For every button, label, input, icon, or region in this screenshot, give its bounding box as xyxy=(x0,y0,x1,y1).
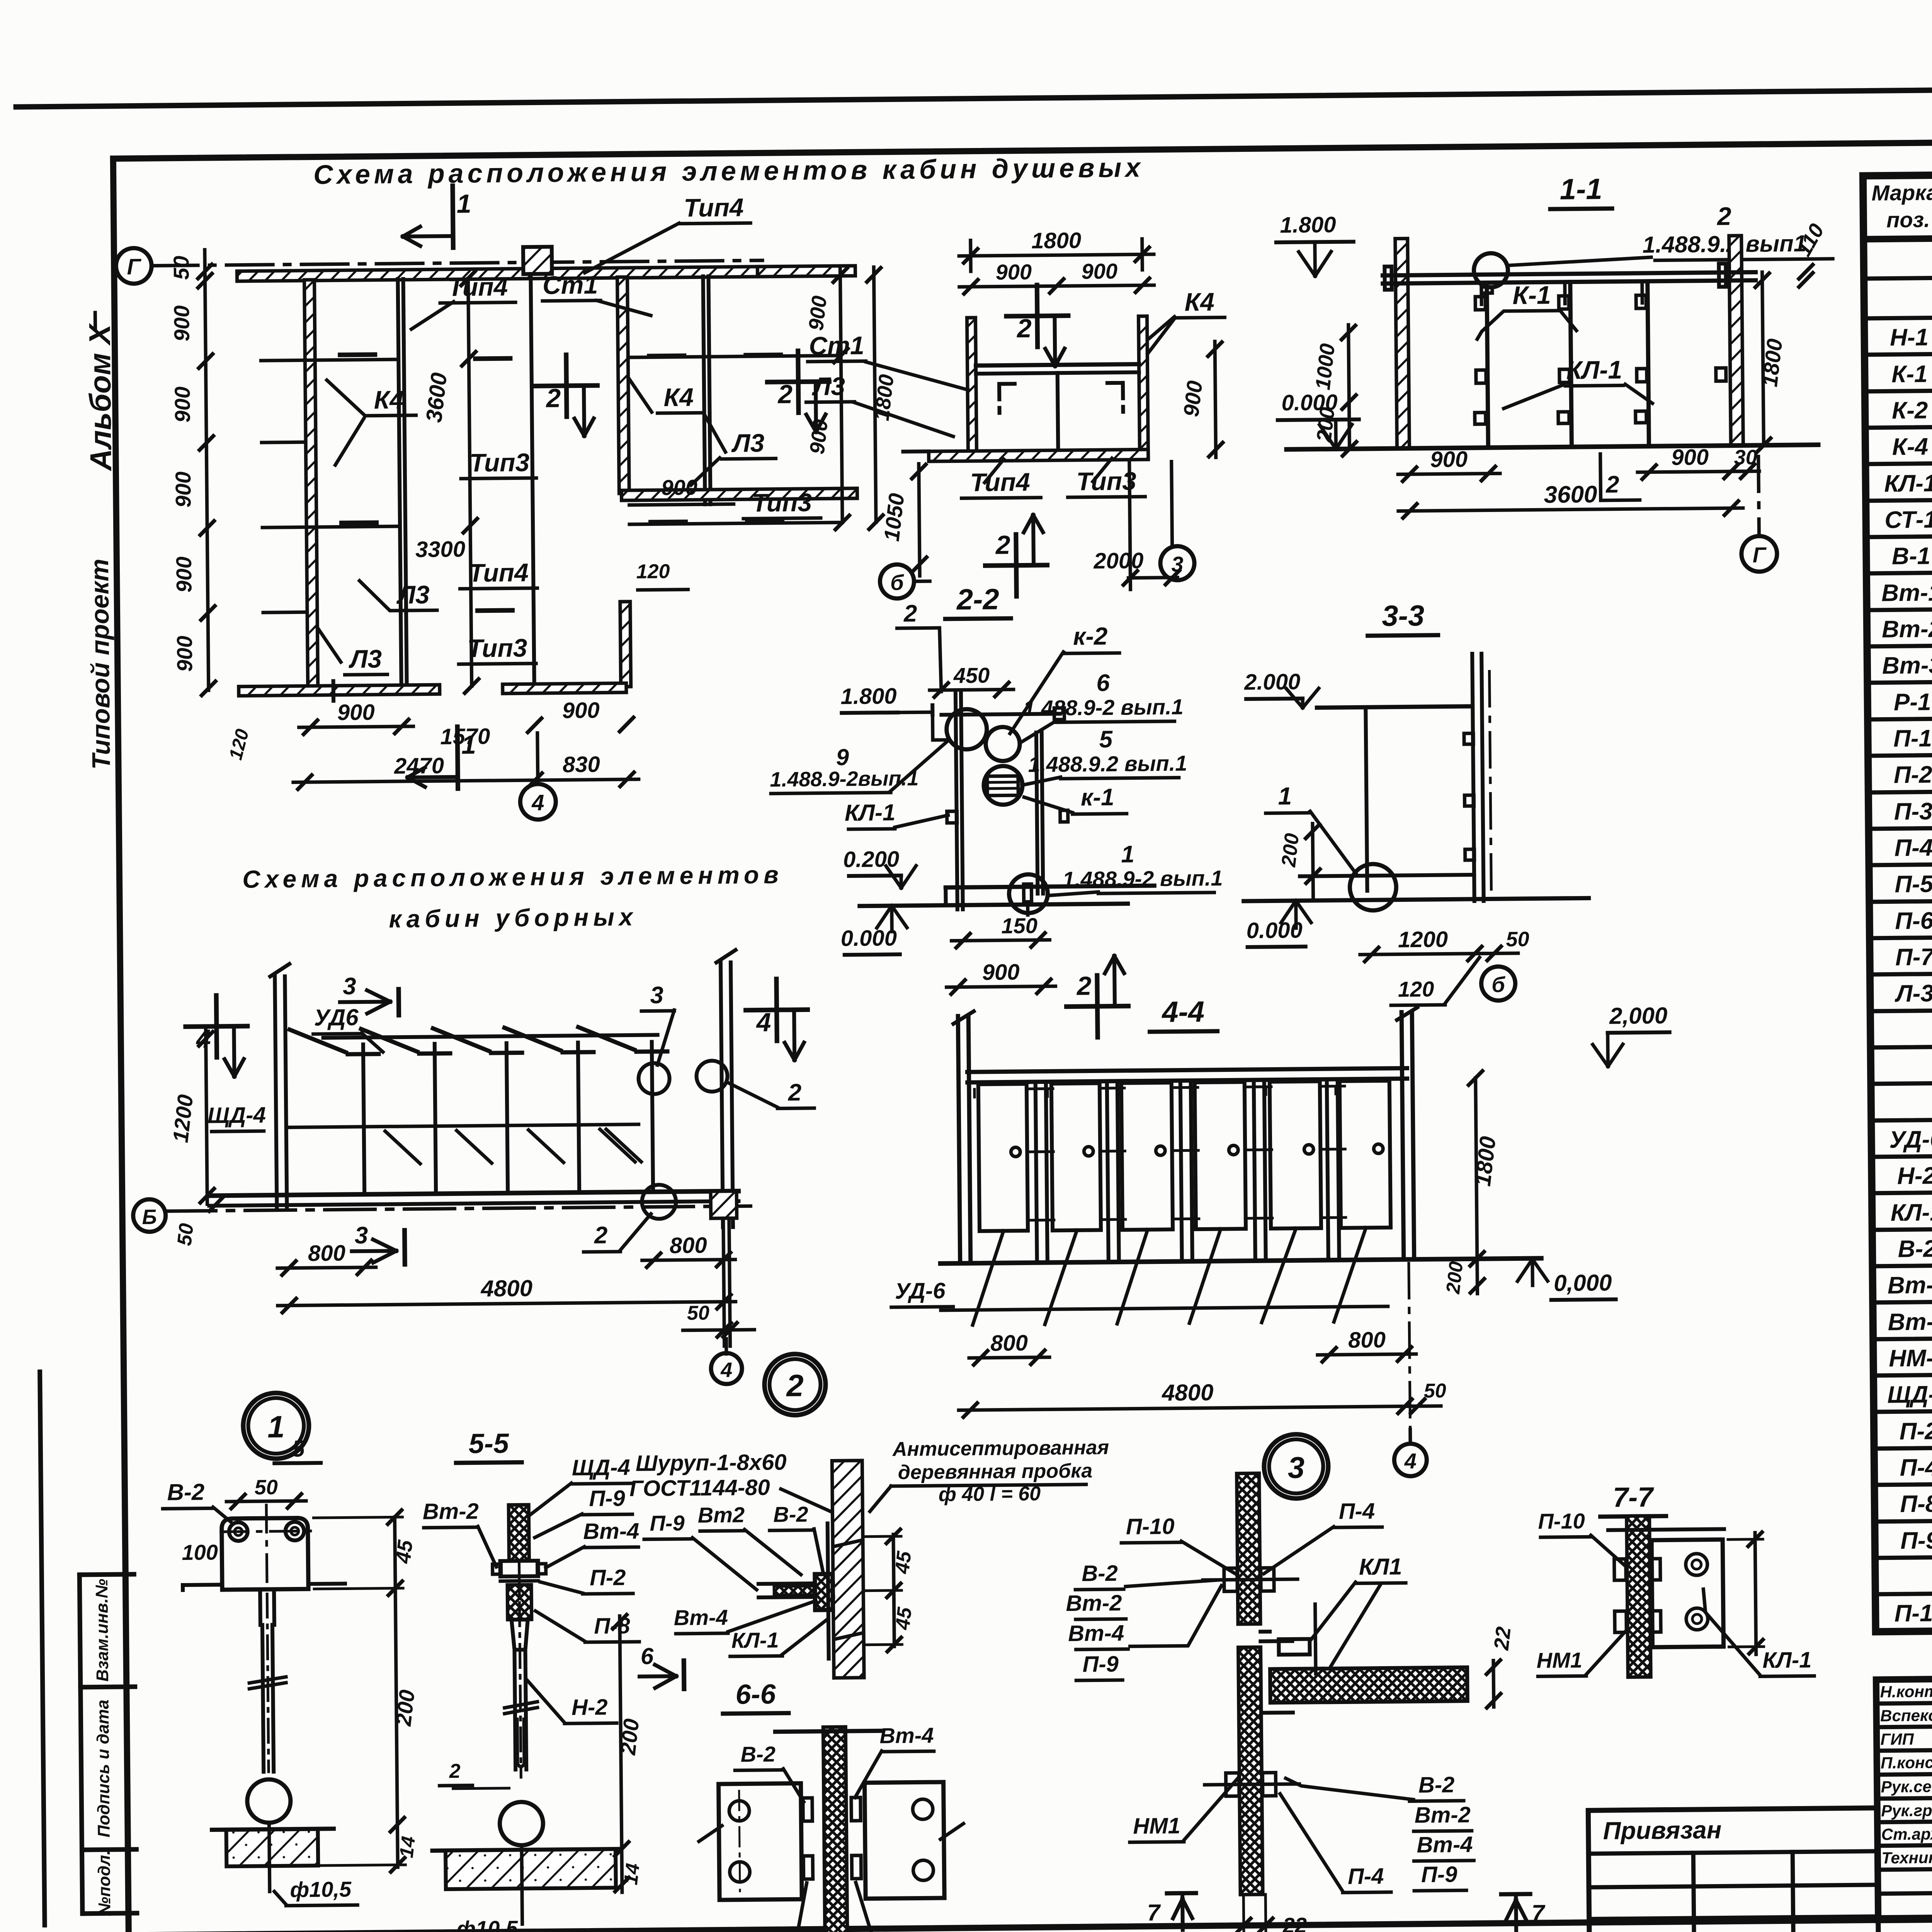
1-1 dim 900 left bottom xyxy=(1398,473,1500,474)
svg-text:900: 900 xyxy=(804,294,832,332)
svg-text:800: 800 xyxy=(308,1240,345,1266)
svg-text:Вт2: Вт2 xyxy=(698,1502,745,1527)
2-2 floor lines xyxy=(946,886,1154,888)
svg-text:6: 6 xyxy=(1096,670,1110,696)
7-7 top line xyxy=(1608,1529,1724,1530)
svg-text:800: 800 xyxy=(670,1233,707,1258)
svg-text:СТ-1: СТ-1 xyxy=(1884,506,1932,533)
svg-text:поз.: поз. xyxy=(1886,207,1930,232)
4-4 dim 200 right xyxy=(1470,1279,1484,1293)
svg-text:0.000: 0.000 xyxy=(1246,918,1303,943)
ubornyh braces diagonal xyxy=(385,1131,420,1164)
1-1 dim 900 30 right bottom xyxy=(1638,471,1743,472)
detail1 shaft break marks xyxy=(249,1677,286,1683)
svg-text:Н-1: Н-1 xyxy=(1890,324,1929,351)
svg-text:Тип3: Тип3 xyxy=(469,448,530,477)
svg-text:1.488.9-2 вып.1: 1.488.9-2 вып.1 xyxy=(1023,694,1184,720)
svg-text:К4: К4 xyxy=(374,385,404,414)
plan dim left column 50 900x5 xyxy=(205,250,209,690)
привязан box xyxy=(1588,1808,1878,1932)
svg-text:НМ1: НМ1 xyxy=(1133,1813,1180,1839)
1-1 posts xyxy=(1487,283,1488,448)
svg-text:6-6: 6-6 xyxy=(735,1679,776,1710)
svg-text:200: 200 xyxy=(1277,832,1304,868)
7-7 clips left xyxy=(1614,1559,1626,1580)
plan bottom-right wall hatched band xyxy=(621,488,857,500)
ubornyh small circles right xyxy=(638,1063,670,1094)
plan bottom wall hatched bands xyxy=(239,685,440,696)
svg-text:3: 3 xyxy=(343,973,356,1000)
big detail circle 2 xyxy=(764,1354,826,1415)
1-1 dim 3600 xyxy=(1398,508,1743,511)
svg-text:2,000: 2,000 xyxy=(1609,1003,1668,1029)
svg-text:900: 900 xyxy=(995,260,1032,284)
svg-text:30: 30 xyxy=(1734,446,1757,469)
svg-text:В-2: В-2 xyxy=(1898,1235,1932,1262)
4-4 leader line УД-6 with diagonals xyxy=(941,1306,1388,1310)
svg-text:Вспекого: Вспекого xyxy=(1880,1706,1932,1725)
svg-text:П-5: П-5 xyxy=(1895,871,1932,898)
5-5 ground hatch xyxy=(432,1849,618,1850)
sectionB dashed corners xyxy=(999,384,1015,413)
Tdetail clips xyxy=(1224,1568,1238,1591)
3-3 floor line xyxy=(1244,898,1589,901)
svg-text:КЛ-1: КЛ-1 xyxy=(1884,470,1932,497)
svg-text:П-9: П-9 xyxy=(650,1511,685,1536)
plan left wall hatched xyxy=(304,280,318,689)
svg-text:1: 1 xyxy=(457,189,471,218)
3-3 shelf line xyxy=(1300,875,1474,876)
svg-text:14: 14 xyxy=(395,1835,419,1859)
svg-text:200: 200 xyxy=(615,1718,643,1757)
svg-text:4: 4 xyxy=(755,1008,771,1037)
4-4 bottom dim 4800 and 50 xyxy=(959,1406,1417,1410)
svg-text:45: 45 xyxy=(391,1539,417,1565)
svg-text:П-4: П-4 xyxy=(1339,1498,1375,1524)
svg-text:2.000: 2.000 xyxy=(1244,669,1301,695)
svg-text:1: 1 xyxy=(1278,782,1292,810)
ubornyh axis Б circle xyxy=(133,1199,166,1232)
svg-text:П-9: П-9 xyxy=(1082,1651,1119,1677)
left margin vertical strip table xyxy=(80,1575,83,1913)
svg-text:КЛ-1: КЛ-1 xyxy=(1891,1199,1932,1226)
3-3 dims 1200 50 120 xyxy=(1360,954,1486,955)
svg-text:Н.контр: Н.контр xyxy=(1880,1682,1932,1701)
svg-text:2: 2 xyxy=(594,1222,608,1248)
detail6 plate on wall xyxy=(828,1524,829,1659)
circled 4 axis bottom xyxy=(537,733,538,784)
detail1 ball foot xyxy=(247,1779,291,1823)
ubornyh door posts and swings xyxy=(363,1044,364,1194)
sectionB shelf double line xyxy=(976,364,1139,366)
svg-text:П-10: П-10 xyxy=(1538,1509,1585,1533)
svg-text:П-10: П-10 xyxy=(1894,1600,1932,1627)
svg-text:830: 830 xyxy=(563,752,600,777)
svg-text:900: 900 xyxy=(337,700,375,725)
svg-text:900: 900 xyxy=(562,698,600,723)
sectionB axis b circle left xyxy=(880,564,914,599)
2-2 panel verticals xyxy=(956,692,957,910)
svg-text:ГОСТ1144-80: ГОСТ1144-80 xyxy=(629,1475,770,1501)
title block name rows xyxy=(1876,1701,1932,1704)
svg-text:Ст1: Ст1 xyxy=(543,270,598,299)
svg-text:900: 900 xyxy=(982,959,1020,985)
svg-text:УД6: УД6 xyxy=(314,1004,359,1031)
svg-text:120: 120 xyxy=(636,560,670,583)
svg-text:14: 14 xyxy=(620,1862,644,1886)
plan dim bottom 2470 830 xyxy=(293,779,639,782)
svg-text:2: 2 xyxy=(545,383,561,413)
svg-text:Л3: Л3 xyxy=(731,429,765,457)
svg-text:Подпись и дата: Подпись и дата xyxy=(94,1699,114,1837)
ubornyh schit line ЩД-4 xyxy=(288,1124,639,1128)
sectionB dim 900 right xyxy=(1215,342,1216,457)
svg-text:ф10,5: ф10,5 xyxy=(290,1877,352,1901)
svg-text:П.констр: П.констр xyxy=(1881,1753,1932,1772)
ubornyh plan left wall double xyxy=(275,976,277,1209)
svg-text:1.800: 1.800 xyxy=(840,684,897,709)
svg-text:2: 2 xyxy=(449,1760,461,1782)
2-2 detail circles xyxy=(946,709,987,750)
svg-text:1800: 1800 xyxy=(1757,337,1787,388)
svg-text:Тип3: Тип3 xyxy=(1076,466,1136,495)
svg-text:Б: Б xyxy=(142,1206,157,1229)
svg-text:7-7: 7-7 xyxy=(1613,1482,1655,1513)
5-5 bushing cluster xyxy=(500,1561,538,1577)
4-4 circle 4 xyxy=(1408,1429,1412,1442)
detail6 bracket horizontal xyxy=(759,1583,833,1584)
svg-text:2: 2 xyxy=(777,379,793,409)
section marker 2 down-right plan xyxy=(798,351,798,413)
svg-text:50: 50 xyxy=(173,1222,198,1247)
svg-text:50: 50 xyxy=(1506,928,1529,951)
svg-text:1.488.9.2 вып1: 1.488.9.2 вып1 xyxy=(1642,230,1806,258)
ubornyh sec marker 4 right xyxy=(776,979,777,1041)
svg-text:1200: 1200 xyxy=(1398,927,1448,952)
svg-text:Н-2: Н-2 xyxy=(571,1695,608,1720)
1-1 bottom 2 marker xyxy=(1600,454,1640,500)
svg-text:Шуруп-1-8х60: Шуруп-1-8х60 xyxy=(636,1449,787,1476)
ubornyh top breaks on walls xyxy=(270,964,289,976)
plan mid-right wall hatched xyxy=(617,277,629,493)
plan cell dash marks xyxy=(340,352,375,357)
svg-text:450: 450 xyxy=(953,663,990,688)
svg-text:1-1: 1-1 xyxy=(1560,173,1602,206)
svg-text:ф10,5: ф10,5 xyxy=(456,1916,518,1932)
svg-text:200: 200 xyxy=(1312,406,1339,444)
plan right dim 900 900 column xyxy=(840,267,842,522)
svg-text:Схема расположения элементов: Схема расположения элементов xyxy=(242,861,783,893)
svg-text:2: 2 xyxy=(1076,971,1092,1001)
svg-text:№подл.: №подл. xyxy=(95,1850,114,1916)
detail6 dims 45 45 right xyxy=(893,1534,894,1600)
svg-text:В-1: В-1 xyxy=(1892,543,1931,570)
svg-text:Типовой проект: Типовой проект xyxy=(85,559,116,770)
detail1 leg shaft xyxy=(258,1589,262,1625)
svg-text:НМ-1: НМ-1 xyxy=(1889,1345,1932,1372)
svg-text:КЛ-1: КЛ-1 xyxy=(1762,1647,1812,1673)
svg-text:2: 2 xyxy=(903,600,917,627)
svg-text:900: 900 xyxy=(169,305,194,342)
2-2 bottom marker 2 xyxy=(1097,975,1097,1037)
sectionB dim 1800 top xyxy=(959,254,1154,256)
4-4 bottom dim 800 left xyxy=(969,1357,1049,1358)
section marker 1 bottom xyxy=(457,727,458,789)
6-6 top plate xyxy=(775,1731,881,1731)
svg-text:3600: 3600 xyxy=(421,371,452,424)
section marker 1 top xyxy=(452,186,453,248)
svg-text:3300: 3300 xyxy=(415,537,466,562)
svg-text:П-2: П-2 xyxy=(590,1565,626,1590)
3-3 dim 200 xyxy=(1313,824,1313,901)
plan dushevyh axis Г circle xyxy=(116,248,152,284)
svg-text:П-9: П-9 xyxy=(1900,1527,1932,1554)
svg-text:Рук.гр.: Рук.гр. xyxy=(1881,1801,1932,1820)
6-6 breaks xyxy=(699,1826,722,1842)
spec table outer border xyxy=(1863,168,1932,1632)
svg-text:Вт-4: Вт-4 xyxy=(583,1519,639,1544)
3-3 axis Б circle xyxy=(1481,966,1515,1001)
svg-text:4-4: 4-4 xyxy=(1161,995,1205,1029)
sectionB axis 3 circle xyxy=(1172,462,1172,547)
4-4 door panels xyxy=(978,1084,1028,1231)
5-5 dim 200 right xyxy=(620,1616,622,1849)
svg-text:Тип4: Тип4 xyxy=(970,468,1030,497)
sheet outer left border line xyxy=(40,1372,44,1925)
svg-text:22: 22 xyxy=(1282,1913,1307,1932)
svg-text:0.000: 0.000 xyxy=(841,925,897,951)
3-3 left vertical xyxy=(1366,707,1367,891)
4-4 posts between panels xyxy=(1036,1082,1037,1263)
6-6 center hatched strip xyxy=(823,1727,848,1932)
svg-text:7: 7 xyxy=(1532,1900,1546,1926)
plan right dim 1800 xyxy=(874,267,876,522)
svg-text:Привязан: Привязан xyxy=(1603,1816,1721,1845)
svg-text:ГИП: ГИП xyxy=(1880,1730,1914,1748)
ubornyh axis dash line xyxy=(166,1206,751,1211)
svg-text:К-1: К-1 xyxy=(1512,281,1551,310)
svg-text:1050: 1050 xyxy=(879,492,909,543)
detail6 clamp middle xyxy=(815,1573,833,1610)
svg-text:4800: 4800 xyxy=(480,1275,532,1301)
svg-text:Г: Г xyxy=(1752,543,1767,567)
sectionB marker 2 down xyxy=(1037,285,1037,347)
svg-text:П-4: П-4 xyxy=(1348,1864,1384,1889)
title block outer box xyxy=(1876,1672,1932,1920)
svg-text:КЛ-1: КЛ-1 xyxy=(845,799,896,826)
svg-text:кабин уборных: кабин уборных xyxy=(389,903,638,933)
Tdetail horizontal hatched shelf xyxy=(1270,1667,1468,1702)
svg-text:Тип3: Тип3 xyxy=(467,633,527,662)
svg-text:Техник: Техник xyxy=(1881,1849,1932,1867)
svg-text:В-2: В-2 xyxy=(773,1502,808,1527)
svg-text:120: 120 xyxy=(1398,977,1434,1002)
svg-text:Вт-4: Вт-4 xyxy=(879,1723,934,1748)
2-2 bolt bottom xyxy=(1024,884,1031,902)
7-7 dim right xyxy=(1755,1533,1756,1655)
svg-text:ЩД-4: ЩД-4 xyxy=(1887,1381,1932,1408)
plan horizontal partition lines xyxy=(261,359,398,361)
7-7 hatched strip xyxy=(1627,1516,1651,1677)
svg-text:Вт-2: Вт-2 xyxy=(1066,1590,1122,1616)
detail1 horizontal plate line xyxy=(183,1583,222,1587)
svg-text:Л3: Л3 xyxy=(396,580,430,609)
svg-text:3: 3 xyxy=(1287,1451,1304,1485)
svg-text:К4: К4 xyxy=(1184,287,1214,316)
plan top wall hatched band xyxy=(237,267,759,281)
4-4 right wall xyxy=(1401,1012,1404,1260)
1-1 dim 1800 right xyxy=(1762,272,1764,445)
svg-text:1800: 1800 xyxy=(1470,1135,1501,1187)
svg-text:2: 2 xyxy=(995,530,1010,560)
detail1 dim 45 right xyxy=(395,1517,395,1588)
ubornyh hatched block right xyxy=(711,1191,737,1219)
sectionB floor line ext xyxy=(903,449,929,454)
1-1 detail circle marker xyxy=(1474,253,1508,287)
svg-text:1: 1 xyxy=(267,1410,285,1444)
detail1 bolts xyxy=(229,1522,248,1541)
svg-text:900: 900 xyxy=(1671,445,1709,470)
2-2 clip squares xyxy=(1054,708,1064,719)
ubornyh plan right wall double xyxy=(721,963,723,1227)
svg-text:6: 6 xyxy=(641,1643,654,1669)
1-1 right wall hatched xyxy=(1729,236,1743,446)
svg-text:Рук.сект.: Рук.сект. xyxy=(1881,1777,1932,1796)
svg-text:1.800: 1.800 xyxy=(1280,212,1336,238)
svg-text:200: 200 xyxy=(391,1689,419,1728)
svg-text:2-2: 2-2 xyxy=(956,583,1000,616)
svg-text:б: б xyxy=(890,570,905,595)
3-3 top line xyxy=(1317,706,1471,707)
big detail circle 1 xyxy=(243,1393,309,1459)
svg-text:Вт-4: Вт-4 xyxy=(1417,1832,1473,1857)
svg-text:900: 900 xyxy=(661,475,697,500)
svg-text:П-9: П-9 xyxy=(1421,1862,1458,1887)
sectionB left post hatched xyxy=(967,318,976,458)
6-6 right plate xyxy=(865,1782,945,1899)
svg-text:П-7: П-7 xyxy=(1895,944,1932,971)
svg-text:Вт-2: Вт-2 xyxy=(423,1498,479,1524)
sectionB mid vertical xyxy=(1058,373,1058,457)
svg-text:П-2: П-2 xyxy=(1900,1418,1932,1445)
ubornyh bottom dim 800 right xyxy=(642,1260,735,1260)
svg-text:Альбом Х: Альбом Х xyxy=(82,323,117,471)
1-1 left wall hatched xyxy=(1395,238,1410,448)
ubornyh axis circle 4 bottom xyxy=(724,1339,728,1354)
detail1 dashed center lines xyxy=(266,1505,267,1590)
svg-text:Ст1: Ст1 xyxy=(809,331,864,360)
Tdetail bolts cross lines xyxy=(1203,1579,1298,1580)
1-1 rail end plates xyxy=(1384,267,1392,290)
svg-text:4800: 4800 xyxy=(1162,1379,1214,1406)
svg-text:1570: 1570 xyxy=(440,724,490,749)
svg-text:2: 2 xyxy=(1016,314,1032,343)
svg-text:КЛ-1: КЛ-1 xyxy=(1566,355,1622,384)
svg-text:120: 120 xyxy=(225,727,253,762)
4-4 dim 1800 right xyxy=(1476,1078,1477,1259)
2-2 top section marker 2 xyxy=(897,628,941,692)
detail1 dim 14 xyxy=(396,1825,400,1867)
svg-text:Вт-4: Вт-4 xyxy=(1068,1621,1124,1646)
svg-text:К4: К4 xyxy=(663,383,694,412)
svg-text:900: 900 xyxy=(1430,447,1468,472)
svg-text:Марка,: Марка, xyxy=(1871,180,1932,205)
Tdetail sec 7 markers xyxy=(1167,1891,1196,1896)
5-5 shaft cone xyxy=(512,1619,528,1650)
svg-text:45: 45 xyxy=(891,1606,916,1631)
4-4 top rail double xyxy=(967,1068,1407,1072)
detail6 sec marker 6 bottom xyxy=(682,1661,687,1689)
svg-text:ЩД-4: ЩД-4 xyxy=(207,1102,266,1128)
svg-text:9: 9 xyxy=(836,744,849,770)
svg-text:Л3: Л3 xyxy=(812,372,845,401)
svg-text:5: 5 xyxy=(292,1435,306,1461)
svg-text:900: 900 xyxy=(1179,379,1207,418)
svg-text:Н-2: Н-2 xyxy=(1897,1162,1932,1189)
ubornyh sec marker 4 left xyxy=(216,995,217,1057)
svg-text:3600: 3600 xyxy=(1544,481,1597,508)
svg-text:150: 150 xyxy=(1001,913,1037,938)
4-4 left wall xyxy=(958,1016,960,1264)
ubornyh bottom dim 4800 xyxy=(278,1302,736,1306)
svg-text:800: 800 xyxy=(990,1330,1028,1356)
7-7 plate xyxy=(1651,1539,1723,1647)
ubornyh dim 1200 left xyxy=(206,1031,207,1204)
ubornyh floor double line xyxy=(209,1191,738,1196)
ubornyh sec marker 3 top xyxy=(396,989,401,1015)
svg-text:900: 900 xyxy=(170,386,195,423)
svg-text:3-3: 3-3 xyxy=(1382,599,1425,633)
svg-text:б: б xyxy=(1492,972,1506,997)
svg-text:Антисептированная: Антисептированная xyxy=(892,1436,1109,1461)
4-4 bottom dim 800 right xyxy=(1318,1354,1416,1355)
svg-text:Л3: Л3 xyxy=(349,645,382,673)
spec table header row line xyxy=(1864,232,1932,239)
plan dim bottom 900 1570 900 xyxy=(299,726,413,728)
svg-text:2: 2 xyxy=(1605,471,1619,498)
svg-text:3: 3 xyxy=(650,982,663,1009)
svg-text:КЛ1: КЛ1 xyxy=(1359,1554,1402,1580)
svg-text:4: 4 xyxy=(531,790,544,815)
3-3 right wall double xyxy=(1472,654,1475,901)
svg-text:П-3: П-3 xyxy=(1894,798,1932,825)
svg-text:В-2: В-2 xyxy=(740,1742,776,1767)
svg-text:деревянная пробка: деревянная пробка xyxy=(898,1460,1093,1484)
detail1 dim 200 right xyxy=(395,1588,397,1825)
plan right short walls hatched xyxy=(757,266,855,277)
svg-text:Г: Г xyxy=(127,254,142,279)
svg-text:КЛ-1: КЛ-1 xyxy=(731,1628,779,1653)
1-1 floor line xyxy=(1286,445,1818,449)
svg-text:1000: 1000 xyxy=(1311,342,1339,391)
1-1 axis Г circle bottom xyxy=(1759,456,1759,536)
svg-text:5: 5 xyxy=(1099,726,1113,753)
svg-text:Р-1: Р-1 xyxy=(1894,689,1931,716)
svg-text:П-4: П-4 xyxy=(1894,835,1932,862)
5-5 spike xyxy=(522,1845,522,1924)
svg-text:УД-6: УД-6 xyxy=(895,1278,946,1304)
svg-text:В-2: В-2 xyxy=(1082,1561,1118,1586)
svg-text:1.488.9.2 вып.1: 1.488.9.2 вып.1 xyxy=(1028,751,1187,777)
svg-text:В-2: В-2 xyxy=(167,1479,204,1505)
svg-text:3: 3 xyxy=(1171,552,1184,576)
2-2 grate symbol xyxy=(987,776,1018,796)
svg-text:900: 900 xyxy=(1081,259,1117,284)
detail1 spike below xyxy=(269,1823,270,1891)
2-2 dim 450 xyxy=(930,689,1014,690)
svg-text:Ст.арх: Ст.арх xyxy=(1881,1825,1932,1843)
svg-text:100: 100 xyxy=(182,1540,218,1565)
